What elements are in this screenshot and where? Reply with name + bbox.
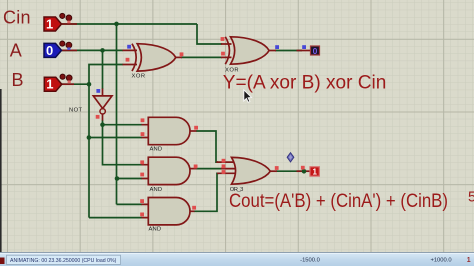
state square AND3 input 1 red: [140, 199, 144, 203]
pin stub AND1 inputs: [142, 125, 150, 138]
svg-text:5: 5: [468, 190, 474, 206]
state square terminal Cout red: [301, 166, 305, 170]
pin stub AND1 output: [190, 130, 197, 132]
state square XOR2 output blue: [275, 45, 279, 49]
wire NOT output down to AND2 top input: [103, 125, 143, 165]
node B junction: [87, 82, 92, 87]
svg-text:B: B: [12, 70, 24, 90]
svg-text:1: 1: [46, 16, 53, 31]
wire B to AND3 bottom input: [89, 217, 142, 219]
svg-text:0: 0: [313, 46, 318, 56]
toggle buttons A: [60, 41, 72, 50]
pin stub Cin logicstate: [62, 23, 78, 25]
pin stub NOT input: [102, 89, 104, 97]
state square XOR2 input Cin red: [221, 37, 225, 41]
state square AND2 input 2 red: [140, 173, 144, 177]
svg-text:1: 1: [312, 168, 317, 177]
terminal Cout output box value 1: [310, 167, 319, 177]
marker origin diamond: [287, 153, 294, 162]
state square OR input 3 red: [222, 170, 226, 174]
node Cin bus junction: [114, 22, 119, 27]
wire Cin to AND3 top input: [117, 203, 143, 205]
svg-text:Cin: Cin: [3, 7, 31, 27]
wire XOR2 output to terminal Y: [275, 50, 302, 52]
svg-text:NOT: NOT: [69, 108, 82, 114]
state square AND2 output red: [194, 165, 198, 169]
svg-text:Cout=(A'B) + (CinA') + (CinB): Cout=(A'B) + (CinA') + (CinB): [229, 190, 448, 212]
pin stub terminal Y: [297, 50, 311, 52]
state square NOT input blue: [96, 89, 100, 93]
pin stub XOR2 inputs: [221, 44, 232, 57]
state square XOR1 input A blue: [127, 45, 131, 49]
pin stub XOR1 output: [176, 56, 183, 58]
or gate OR_3: [232, 157, 271, 184]
node terminal Cout junction: [302, 169, 307, 174]
pin stub AND3 output: [188, 210, 194, 212]
svg-text:AND: AND: [150, 147, 163, 153]
wire A horizontal to XOR1 top input: [61, 49, 123, 51]
and gate U4 (A'B): [148, 117, 190, 144]
not gate U3: [93, 96, 112, 114]
wire A vertical to NOT input: [102, 50, 104, 89]
svg-text:ANIMATING: 00 23.36.250000 (CP: ANIMATING: 00 23.36.250000 (CPU load 0%): [10, 258, 117, 264]
node B to AND1 junction: [87, 135, 92, 140]
pin stub terminal Cout: [297, 170, 311, 172]
state square AND1 input 1 red: [141, 118, 145, 122]
wire NOT output to AND1 top input: [103, 120, 143, 125]
xor gate U2 ((A xor B) xor Cin): [225, 37, 269, 64]
xor gate U1 (A xor B): [132, 44, 176, 71]
wire B vertical bus: [88, 84, 90, 217]
wire AND2 output to OR input 2: [196, 168, 222, 170]
wire OR output to terminal Cout: [276, 170, 302, 172]
svg-text:0: 0: [46, 43, 53, 58]
wire Cin corner down to XOR2 top input: [197, 24, 222, 44]
svg-text:-1500.0: -1500.0: [300, 258, 320, 264]
svg-text:Y=(A xor B) xor Cin: Y=(A xor B) xor Cin: [223, 72, 386, 94]
state square XOR2 input 2 red: [221, 52, 225, 56]
node NOT output junction: [100, 122, 105, 127]
node Cin to AND2 junction: [115, 176, 120, 181]
svg-text:+1000.0: +1000.0: [430, 258, 451, 264]
and gate U5 (CinA'): [148, 157, 190, 184]
pin stub AND3 inputs: [142, 204, 150, 217]
wire B horizontal: [60, 83, 89, 85]
svg-text:AND: AND: [150, 187, 163, 193]
state square OR input 1 red: [222, 159, 226, 163]
wire B to AND1 bottom input: [89, 137, 142, 139]
node A junction: [100, 48, 105, 53]
state square XOR1 input B red: [126, 58, 130, 62]
pin stub XOR1 inputs: [123, 50, 138, 64]
pin stub A logicstate: [61, 49, 77, 51]
state square AND1 output red: [194, 126, 198, 130]
logicstate B value 1: [44, 77, 62, 92]
state square XOR1 output red: [180, 52, 184, 56]
mouse cursor: [244, 90, 252, 103]
status panel animating: [7, 255, 121, 264]
svg-text:A: A: [10, 41, 22, 61]
state square OR input 2 red: [222, 164, 226, 168]
wire AND3 output riser to OR input 3: [194, 173, 219, 211]
state square OR output red: [275, 166, 279, 170]
red component pin stubs: [60, 24, 311, 218]
wire B riser to XOR1 bottom input: [89, 65, 123, 85]
state square terminal Y blue: [302, 45, 306, 49]
state square AND1 input 2 red: [141, 132, 145, 136]
wire AND1 output to OR input 1: [196, 131, 218, 162]
logicstate Cin value 1: [44, 16, 62, 31]
pin stub AND2 output: [190, 168, 197, 170]
wire Cin to AND2 bottom input: [117, 178, 143, 180]
pin stub AND2 inputs: [142, 165, 150, 179]
logicstate A value 0: [44, 43, 62, 58]
and gate U6 (CinB): [148, 198, 190, 225]
wire Cin horizontal: [62, 23, 197, 25]
state square AND3 output red: [192, 206, 196, 210]
toggle buttons B: [60, 74, 72, 83]
state square AND3 input 2 red: [140, 213, 144, 217]
svg-text:1: 1: [467, 257, 471, 264]
pin stub NOT output: [102, 114, 104, 121]
pin stub OR output: [270, 170, 277, 172]
pin stub B logicstate: [60, 83, 74, 85]
terminal Y output box value 0: [311, 46, 320, 56]
svg-text:1: 1: [46, 77, 53, 92]
state square AND2 input 1 red: [140, 160, 144, 164]
pin stub XOR2 output: [269, 50, 276, 52]
svg-text:AND: AND: [149, 227, 162, 233]
wire Cin vertical bus: [116, 24, 118, 204]
svg-text:XOR: XOR: [132, 74, 146, 80]
toggle buttons Cin: [60, 13, 72, 23]
wire XOR1 output to XOR2 bottom input: [181, 56, 222, 58]
wires get added here: [60, 24, 302, 218]
left window edge: [0, 89, 2, 253]
pin stub OR inputs: [216, 162, 236, 173]
status bottom-left red block: [0, 258, 5, 265]
status bar: [0, 253, 474, 266]
pin state indicator squares: [96, 37, 306, 216]
state square NOT output red: [96, 115, 100, 119]
